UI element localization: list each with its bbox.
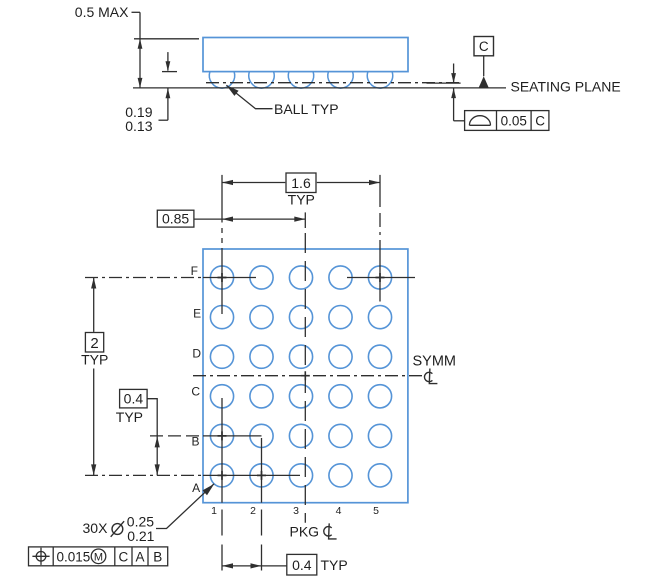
svg-text:BALL TYP: BALL TYP	[274, 101, 339, 117]
PKG centerline tick	[304, 212, 306, 228]
ball B1	[210, 424, 233, 447]
row B extension (dashed)	[150, 435, 203, 437]
SYMM centerline symbol	[424, 369, 437, 384]
true position symbol	[32, 548, 49, 565]
BALL TYP leader	[226, 85, 272, 109]
0.4 left dimension line	[156, 436, 158, 476]
coplanarity upper line	[427, 82, 461, 84]
ball C3	[289, 385, 312, 408]
svg-text:TYP: TYP	[288, 192, 315, 208]
PKG centerline dashed	[304, 233, 306, 523]
svg-text:SYMM: SYMM	[413, 353, 457, 369]
svg-text:TYP: TYP	[321, 557, 348, 573]
svg-text:0.4: 0.4	[124, 391, 144, 407]
svg-text:0.13: 0.13	[125, 118, 152, 134]
svg-text:B: B	[191, 435, 199, 449]
ball D5	[368, 345, 391, 368]
column 2 centerline below package	[261, 510, 263, 575]
svg-text:C: C	[479, 39, 489, 54]
SYMM center mark	[301, 371, 310, 380]
1.6 value box	[286, 173, 316, 193]
column 2 vertical centerline	[261, 438, 263, 503]
0.85 right arrowhead	[294, 217, 305, 222]
0.4 left up arrowhead	[155, 436, 160, 447]
2 value box	[85, 333, 103, 353]
1.6 dimension line left	[222, 182, 285, 184]
0.4 bottom dimension line	[222, 565, 287, 567]
0.19/0.13 upper arrowhead	[166, 61, 171, 71]
1.6 dimension line right	[317, 182, 380, 184]
solder ball 4 (side view)	[328, 72, 353, 89]
ball A4	[329, 464, 352, 487]
ball B4	[329, 424, 352, 447]
svg-text:2: 2	[90, 335, 98, 352]
svg-text:F: F	[191, 264, 198, 278]
0.4 left down arrowhead	[155, 464, 160, 475]
1.6 ext line col1 dashes	[221, 228, 223, 249]
0.19/0.13 lower arrow line	[167, 88, 169, 120]
row F extension (dash-dot)	[85, 277, 203, 279]
solder ball 1 (side view)	[209, 72, 234, 89]
ball B2	[250, 424, 273, 447]
0.19/0.13 leader jog	[159, 119, 168, 121]
30X leader arrowhead	[203, 484, 215, 495]
datum C box	[474, 37, 494, 56]
0.05 upper arrow line	[453, 64, 455, 83]
1.6 ext line col1 upper	[221, 175, 223, 223]
ball C1	[210, 385, 233, 408]
1.6 ext line col5 upper	[379, 175, 381, 207]
1.6 ext line col5 dashes	[379, 213, 381, 249]
0.85 left arrowhead	[222, 217, 233, 222]
ball C2	[250, 385, 273, 408]
0.4 bottom right arrowhead	[251, 563, 262, 568]
svg-text:0.5 MAX: 0.5 MAX	[75, 4, 129, 20]
seating plane line	[133, 87, 506, 89]
svg-text:0.015: 0.015	[57, 549, 91, 564]
ball A1	[210, 464, 233, 487]
package outline (bottom view)	[203, 249, 408, 503]
svg-text:2: 2	[250, 505, 256, 517]
ball D4	[329, 345, 352, 368]
ball F4	[329, 266, 352, 289]
0.4 value box (bottom)	[287, 554, 317, 575]
ball C4	[329, 385, 352, 408]
solder ball 2 (side view)	[249, 72, 274, 89]
1.6 right arrowhead	[369, 180, 380, 185]
svg-text:0.05: 0.05	[501, 114, 527, 129]
svg-text:A: A	[135, 549, 144, 564]
svg-text:A: A	[192, 481, 200, 495]
position fcf divider 3	[131, 547, 133, 566]
position fcf divider 2	[114, 547, 116, 566]
row A extension (dash-dot)	[85, 474, 203, 476]
fcf divider 1	[496, 111, 498, 131]
row F line through F1	[203, 277, 256, 279]
ball E1	[210, 306, 233, 329]
position fcf divider 1	[52, 547, 54, 566]
PKG centerline symbol	[324, 523, 337, 539]
ball F2	[250, 266, 273, 289]
feature control frame (0.05 C) box	[465, 111, 549, 131]
svg-text:0.4: 0.4	[292, 557, 312, 573]
0.4 left leader	[147, 399, 157, 436]
svg-text:B: B	[153, 549, 162, 564]
datum C stem	[483, 56, 485, 76]
diameter symbol	[111, 521, 124, 537]
ball E5	[368, 306, 391, 329]
solder ball 3 (side view)	[288, 72, 313, 89]
0.5 MAX top arrowhead	[138, 39, 143, 49]
svg-text:0.85: 0.85	[162, 211, 189, 227]
A2 center mark	[257, 471, 266, 480]
side view: package top extension line	[134, 38, 199, 40]
position fcf divider 4	[147, 547, 149, 566]
ball F1	[210, 266, 233, 289]
2 TYP dimension line upper	[93, 278, 95, 332]
svg-text:D: D	[192, 347, 201, 361]
ball E4	[329, 306, 352, 329]
svg-text:TYP: TYP	[81, 351, 108, 367]
0.19/0.13 upper extension line	[162, 71, 177, 73]
ball E2	[250, 306, 273, 329]
A1 center mark	[218, 471, 227, 480]
SYMM centerline (dash-dot)	[193, 375, 422, 377]
row A line through A1 A2	[203, 474, 300, 476]
svg-text:0.21: 0.21	[127, 528, 154, 544]
ball B3	[289, 424, 312, 447]
ball centerline (dash-dot)	[206, 82, 461, 84]
solder ball 5 (side view)	[367, 72, 392, 89]
BALL TYP arrowhead	[226, 85, 238, 96]
row F line through F5	[347, 277, 415, 279]
column 1 vertical centerline	[221, 398, 223, 503]
ball F5	[368, 266, 391, 289]
svg-text:1: 1	[211, 505, 217, 517]
svg-text:30X: 30X	[83, 520, 109, 536]
ball D2	[250, 345, 273, 368]
0.5 MAX leader elbow	[132, 11, 141, 13]
profile-of-surface symbol	[469, 116, 490, 126]
0.4 bottom left arrowhead	[222, 563, 233, 568]
ball A2	[250, 464, 273, 487]
column 1 centerline below package	[221, 510, 223, 575]
0.19/0.13 lower arrowhead	[166, 88, 171, 98]
svg-text:E: E	[193, 306, 201, 320]
mmc modifier symbol	[91, 549, 106, 564]
F5 center mark	[376, 273, 385, 282]
ball A5	[368, 464, 391, 487]
0.05 upper arrowhead	[451, 73, 456, 83]
0.5 MAX dimension line	[139, 12, 141, 88]
package body (side view)	[203, 38, 408, 72]
seating plane datum triangle	[479, 76, 489, 88]
F1 center mark	[218, 273, 227, 282]
F5 vertical centerline	[379, 249, 381, 302]
2 TYP top arrowhead	[91, 278, 96, 289]
0.85 value box	[157, 210, 194, 227]
0.19/0.13 upper arrow line	[167, 52, 169, 71]
svg-text:TYP: TYP	[116, 409, 143, 425]
position fcf box	[29, 547, 168, 566]
ball A3	[289, 464, 312, 487]
ball D1	[210, 345, 233, 368]
svg-text:C: C	[191, 384, 200, 398]
1.6 left arrowhead	[222, 180, 233, 185]
0.05 lower arrowhead	[451, 88, 456, 98]
fcf divider 2	[530, 111, 532, 131]
svg-text:C: C	[535, 114, 545, 129]
svg-text:C: C	[119, 549, 129, 564]
svg-text:1.6: 1.6	[291, 175, 311, 191]
0.85 dimension line	[194, 218, 305, 220]
svg-text:PKG: PKG	[290, 524, 320, 540]
ball F3	[289, 266, 312, 289]
0.4 value box (left)	[120, 389, 148, 408]
F1 vertical centerline	[221, 249, 223, 314]
2 TYP bottom arrowhead	[91, 464, 96, 475]
B1 center mark	[218, 431, 227, 440]
svg-text:3: 3	[293, 505, 299, 517]
svg-text:5: 5	[373, 505, 379, 517]
ball C5	[368, 385, 391, 408]
0.05 leader to frame	[454, 120, 465, 122]
svg-text:M: M	[94, 551, 103, 563]
ball E3	[289, 306, 312, 329]
svg-text:SEATING PLANE: SEATING PLANE	[511, 79, 621, 95]
svg-text:4: 4	[336, 505, 342, 517]
ball D3	[289, 345, 312, 368]
30X leader	[156, 484, 214, 529]
0.05 lower arrow line	[453, 88, 455, 121]
2 TYP dimension line lower	[93, 369, 95, 476]
row B line through B1	[203, 435, 262, 437]
ball B5	[368, 424, 391, 447]
0.5 MAX bottom arrowhead	[138, 78, 143, 88]
